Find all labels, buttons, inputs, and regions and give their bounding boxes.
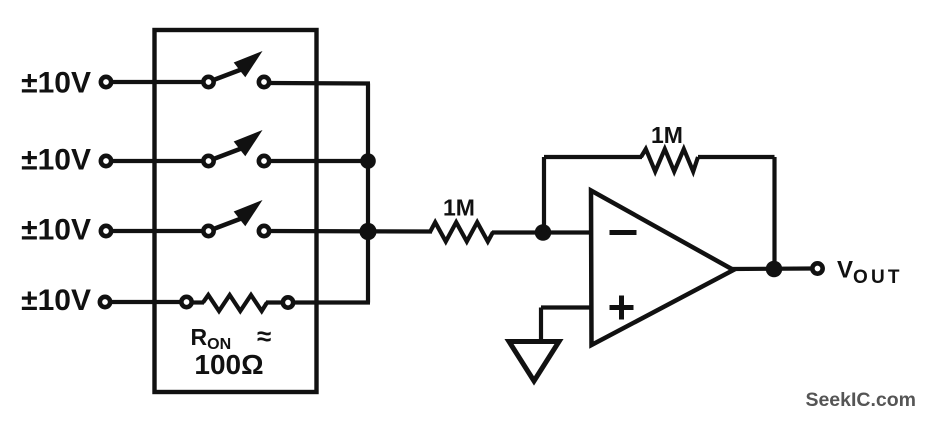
input terminal 3 (open circle) [101, 226, 111, 236]
svg-text:1M: 1M [651, 122, 683, 148]
junction node at inverting input [535, 224, 552, 241]
analog switch box outline [155, 30, 317, 392]
wire non-inverting input to ground [541, 305, 591, 309]
wire R1 to op-amp inverting input [492, 230, 591, 234]
resistor R1 1M [430, 222, 493, 241]
switch S1 [203, 77, 213, 87]
switch S3 [203, 226, 213, 236]
op-amp inverting (-) sign [610, 230, 637, 235]
wire op-amp output to Vout terminal [731, 266, 812, 271]
wire feedback top right segment [698, 155, 775, 159]
wire S3 output to bus and on to R1 [267, 229, 432, 234]
resistor Ron (100 ohm) with terminal circles [181, 297, 191, 307]
wire S1 output to bus corner [269, 81, 370, 86]
wire feedback right vertical to output [772, 157, 776, 269]
svg-text:SeekIC.com: SeekIC.com [805, 389, 916, 411]
svg-text:±10V: ±10V [21, 214, 91, 247]
svg-text:±10V: ±10V [21, 144, 91, 177]
output terminal (open circle) [812, 263, 822, 273]
wire feedback top left segment [544, 155, 642, 159]
input terminal 1 (open circle) [101, 77, 111, 87]
wire feedback left vertical [542, 157, 546, 232]
resistor R2 1M feedback [641, 149, 698, 172]
junction node bus/S3 [359, 223, 376, 240]
svg-text:≈: ≈ [257, 321, 271, 351]
wire input4 to resistor Ron [110, 300, 182, 304]
junction node output/feedback [766, 261, 783, 278]
switch S2 [203, 156, 213, 166]
ground symbol [509, 342, 559, 382]
wire input2 to switch S2 [111, 159, 203, 163]
input terminal 4 (open circle) [100, 297, 110, 307]
wire Ron output to bus [293, 300, 370, 304]
wire S2 output to bus [269, 159, 368, 163]
bus vertical wire [366, 84, 370, 303]
junction node bus/S2 [360, 153, 376, 169]
input terminal 2 (open circle) [101, 156, 111, 166]
wire input3 to switch S3 [111, 229, 203, 233]
svg-text:1M: 1M [443, 195, 475, 221]
op-amp U1 triangle [591, 191, 734, 346]
wire input1 to switch S1 [111, 80, 203, 84]
svg-text:±10V: ±10V [21, 67, 91, 100]
svg-text:100Ω: 100Ω [194, 349, 263, 380]
op-amp non-inverting (+) sign [610, 305, 634, 310]
svg-text:±10V: ±10V [21, 284, 91, 317]
